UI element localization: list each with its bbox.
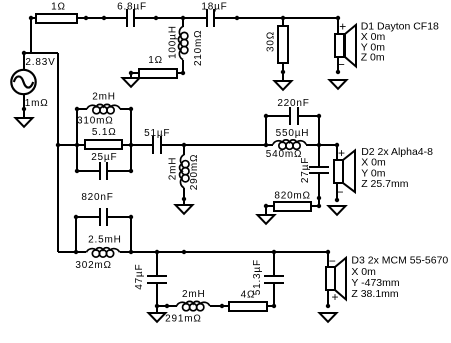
node C7 bottom [317, 196, 321, 200]
svg-text:310mΩ: 310mΩ [77, 115, 114, 126]
wire group2 right vertical [318, 116, 320, 145]
svg-text:−: − [338, 57, 345, 71]
svg-text:2.5mH: 2.5mH [88, 235, 121, 246]
wire R5 to C7 [311, 205, 319, 207]
ground source [16, 118, 33, 127]
wire group3 left vertical [75, 217, 77, 252]
node mid rail L4 junction [182, 143, 186, 147]
svg-text:1mΩ: 1mΩ [25, 98, 49, 109]
node top rail B [84, 16, 88, 20]
node group3 TR [129, 215, 133, 219]
node mid rail bus [56, 143, 60, 147]
svg-text:820mΩ: 820mΩ [274, 191, 311, 202]
ground C9 [149, 313, 166, 322]
voltage source V1 2.83V [11, 70, 35, 94]
svg-text:6.8µF: 6.8µF [117, 2, 147, 13]
svg-text:1Ω: 1Ω [148, 55, 163, 66]
capacitor C9 47uF [147, 276, 167, 283]
node group2 right [317, 143, 321, 147]
svg-text:291mΩ: 291mΩ [165, 314, 202, 325]
capacitor C10 51.3uF [264, 276, 284, 283]
node L4 bottom [182, 197, 186, 201]
node top rail C [102, 16, 106, 20]
node top rail R3 junction [281, 16, 285, 20]
wire group3 right vertical [130, 217, 132, 252]
wire source top lead [23, 52, 25, 70]
node group1 BL [75, 169, 79, 173]
node mid rail D2 [335, 143, 339, 147]
inductor L2 100uH vertical [178, 26, 187, 59]
inductor L6 2.5mH [86, 248, 119, 257]
speaker D2 cone [343, 151, 355, 193]
wire group1 bottom left lead [77, 170, 100, 172]
wire C7 top lead [318, 145, 320, 167]
wire ground node to L7 [157, 305, 177, 307]
node group1 TR [129, 107, 133, 111]
wire shunt L4 top lead [183, 145, 185, 155]
svg-text:820nF: 820nF [81, 192, 113, 203]
node group1 right [129, 143, 133, 147]
speaker D1 driver body [335, 34, 344, 57]
wire R3 bottom lead [282, 63, 284, 81]
wire mid rail R4 to C5 [122, 144, 153, 146]
node top rail D1 [336, 16, 340, 20]
svg-text:47µF: 47µF [134, 264, 145, 290]
wire source jog [23, 52, 58, 54]
wire top rail stub [31, 17, 36, 19]
node R6 right [272, 304, 276, 308]
wire C9 bottom lead [156, 283, 158, 313]
speaker D2 wire to driver [336, 145, 338, 160]
ground L4 [176, 205, 193, 214]
svg-text:100µH: 100µH [167, 25, 178, 59]
wire group3 top left lead [76, 216, 100, 218]
wire group1 bottom right lead [107, 170, 131, 172]
ground R2 [123, 78, 140, 87]
node top rail D [154, 16, 158, 20]
node group1 left [75, 143, 79, 147]
speaker D3 ground [320, 313, 337, 322]
wire group2 top right lead [298, 115, 319, 117]
wire group1 top left lead [77, 108, 87, 110]
ground R5 [258, 215, 275, 224]
wire R5 ground lead [266, 205, 274, 207]
wire shunt L2 bottom lead [182, 60, 184, 73]
node group2 TR [317, 114, 321, 118]
wire mid rail C5 to L5 [161, 144, 273, 146]
svg-text:+: + [331, 290, 338, 304]
resistor R5 820mR [274, 202, 311, 211]
wire top rail R1 to C1 [77, 17, 127, 19]
wire R2 to ground node [131, 72, 139, 74]
svg-text:−: − [329, 254, 336, 268]
node bottom rail group3 left [74, 250, 78, 254]
svg-text:+: + [338, 146, 345, 160]
wire R6 to C10 [266, 305, 274, 307]
capacitor C5 51uF [153, 136, 161, 154]
speaker D1 wire to ground dot [337, 57, 339, 72]
wire group1 top right lead [120, 108, 131, 110]
wire group3 top right lead [107, 216, 131, 218]
wire group1 left vertical [76, 109, 78, 171]
speaker D3 ground node [326, 304, 330, 308]
speaker D1 wire to driver [337, 18, 339, 34]
speaker D3 wire to ground dot [327, 290, 329, 306]
node R5 left [264, 204, 268, 208]
speaker D1 ground node [336, 70, 340, 74]
svg-text:30Ω: 30Ω [265, 31, 276, 52]
speaker D2 ground [329, 206, 346, 215]
node bottom rail F [182, 250, 186, 254]
wire riser to top rail [30, 18, 32, 53]
wire main bus vertical [57, 53, 59, 252]
node group1 TL [75, 107, 79, 111]
node top rail shunt junction [181, 16, 185, 20]
svg-text:2.83V: 2.83V [25, 57, 55, 68]
capacitor C7 27uF [309, 167, 329, 173]
node bottom rail C9 junction [155, 250, 159, 254]
inductor L3 2mH [87, 104, 120, 113]
node bottom rail D3 [326, 250, 330, 254]
wire mid rail L5 to D2 [306, 144, 337, 146]
wire bottom rail bus to L6 [58, 251, 86, 253]
svg-text:5.1Ω: 5.1Ω [92, 127, 117, 138]
node source top [22, 51, 26, 55]
wire mid rail bus to group [58, 144, 85, 146]
wire C10 bottom lead [273, 283, 275, 306]
wire source bottom lead [23, 94, 25, 118]
wire C9 top lead [156, 252, 158, 277]
wire top rail C1 to C2 [134, 17, 207, 19]
speaker D2 driver body [334, 160, 343, 183]
node C9 bottom [155, 304, 159, 308]
svg-text:220nF: 220nF [277, 98, 309, 109]
svg-text:18µF: 18µF [201, 2, 227, 13]
svg-text:302mΩ: 302mΩ [75, 260, 112, 271]
node L7 left [165, 304, 169, 308]
capacitor C8 820nF [100, 208, 107, 226]
svg-text:550µH: 550µH [276, 128, 310, 139]
svg-text:290mΩ: 290mΩ [189, 154, 200, 191]
capacitor C2 18uF [207, 9, 214, 27]
speaker D3 cone [335, 258, 346, 300]
svg-text:25µF: 25µF [91, 152, 117, 163]
speaker D3 driver body [326, 267, 335, 290]
wire group2 top left lead [266, 115, 290, 117]
resistor R2 1R shunt [139, 69, 177, 78]
speaker D2 ground node [335, 198, 339, 202]
wire L2 to R2 [176, 72, 183, 74]
wire shunt L2 top lead [182, 18, 184, 27]
svg-text:540mΩ: 540mΩ [266, 149, 303, 160]
wire top rail C2 to D1 [214, 17, 338, 19]
node L2 bottom [181, 71, 185, 75]
speaker D3 wire to driver [327, 252, 329, 267]
wire R3 top lead [282, 18, 284, 26]
svg-text:+: + [339, 20, 346, 34]
svg-text:1Ω: 1Ω [51, 1, 66, 12]
wire R5 ground drop [265, 206, 267, 215]
resistor R4 5.1R [85, 140, 122, 149]
resistor R1 1R series [36, 14, 77, 23]
speaker D1 cone [345, 25, 356, 67]
node C7 R5 corner [317, 204, 321, 208]
svg-text:2mH: 2mH [92, 91, 116, 102]
wire bottom rail L6 right [120, 251, 328, 253]
wire C7 bottom lead [318, 173, 320, 206]
wire L7 to R6 [210, 305, 229, 307]
capacitor C4 25uF [100, 162, 107, 180]
svg-text:51.3µF: 51.3µF [252, 259, 263, 295]
node group2 left [264, 143, 268, 147]
capacitor C1 6.8uF [127, 9, 134, 27]
node R3 bottom [281, 70, 285, 74]
svg-text:2mH: 2mH [182, 289, 206, 300]
node bottom rail C10 junction [272, 250, 276, 254]
wire shunt L4 bottom lead [183, 188, 185, 205]
node bottom rail group3 right [129, 250, 133, 254]
inductor L5 550uH [273, 140, 306, 149]
svg-text:−: − [336, 185, 343, 199]
speaker D2 wire to ground dot [336, 183, 338, 200]
resistor R3 30R [278, 26, 288, 63]
node top rail E [235, 16, 239, 20]
node group2 TL [264, 114, 268, 118]
wire R2 ground lead [130, 73, 132, 78]
svg-text:210mΩ: 210mΩ [193, 30, 204, 67]
capacitor C6 220nF [290, 107, 298, 125]
resistor R6 4R [229, 302, 267, 311]
speaker D1 ground [330, 80, 347, 89]
svg-text:27µF: 27µF [300, 157, 311, 183]
svg-text:2mH: 2mH [168, 157, 179, 181]
inductor L7 2mH 291mR [177, 301, 210, 310]
wire group1 right vertical [130, 109, 132, 171]
wire group2 left vertical [265, 116, 267, 145]
node L7 right [220, 304, 224, 308]
node group3 TL [74, 215, 78, 219]
node R2 left [129, 71, 133, 75]
node source bottom [22, 107, 26, 111]
inductor L4 2mH 290mR vertical [180, 155, 189, 188]
node top rail A [29, 16, 33, 20]
ground R3 [275, 81, 292, 90]
svg-text:51µF: 51µF [144, 128, 170, 139]
wire C10 top lead [273, 252, 275, 277]
node group1 BR [129, 169, 133, 173]
